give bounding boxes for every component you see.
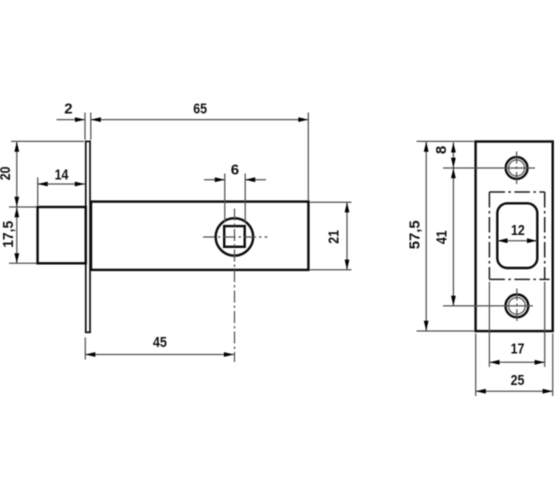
svg-text:57,5: 57,5 (407, 220, 424, 249)
svg-text:6: 6 (231, 162, 239, 179)
svg-text:2: 2 (64, 101, 72, 118)
svg-text:17,5: 17,5 (0, 221, 17, 248)
svg-text:25: 25 (511, 372, 525, 389)
svg-text:45: 45 (153, 334, 167, 351)
svg-text:8: 8 (433, 146, 450, 154)
svg-text:14: 14 (55, 167, 69, 184)
svg-text:21: 21 (326, 230, 343, 244)
svg-text:65: 65 (193, 100, 207, 117)
svg-text:12: 12 (511, 222, 525, 239)
svg-text:20: 20 (0, 167, 14, 181)
svg-text:17: 17 (511, 341, 525, 358)
svg-text:41: 41 (434, 230, 451, 244)
